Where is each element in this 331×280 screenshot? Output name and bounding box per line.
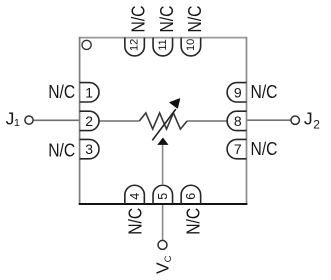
svg-text:N/C: N/C xyxy=(183,208,203,235)
svg-text:6: 6 xyxy=(184,193,198,200)
package outline top xyxy=(80,37,247,39)
svg-text:5: 5 xyxy=(156,193,170,200)
wire pin2 to resistor xyxy=(99,120,140,122)
svg-text:9: 9 xyxy=(234,84,242,100)
svg-text:2: 2 xyxy=(313,118,320,132)
pin 6 xyxy=(181,185,201,204)
variable-resistor diagonal arrow xyxy=(152,109,176,140)
pin 11 xyxy=(153,38,173,56)
pin 9 xyxy=(227,83,246,102)
pin 3 xyxy=(80,139,99,158)
svg-text:N/C: N/C xyxy=(251,139,278,159)
pin 12 xyxy=(125,38,145,56)
svg-text:10: 10 xyxy=(185,39,197,51)
pin 1 indicator circle xyxy=(82,40,91,49)
package outline right xyxy=(246,37,248,204)
svg-text:N/C: N/C xyxy=(185,6,205,33)
svg-text:1: 1 xyxy=(85,84,93,100)
wire pin 5 to Vc terminal xyxy=(162,205,164,240)
pin 8 xyxy=(227,111,246,130)
svg-text:N/C: N/C xyxy=(48,140,75,160)
svg-text:2: 2 xyxy=(85,113,93,129)
svg-text:N/C: N/C xyxy=(157,6,177,33)
svg-text:J: J xyxy=(304,109,313,129)
svg-text:N/C: N/C xyxy=(48,82,75,102)
svg-text:8: 8 xyxy=(234,113,242,129)
pin 2 xyxy=(80,111,99,130)
terminal Vc xyxy=(158,240,167,249)
pin 7 xyxy=(227,139,246,158)
svg-text:1: 1 xyxy=(14,117,20,129)
pin 10 xyxy=(181,38,201,56)
terminal J1 xyxy=(25,116,33,124)
svg-text:4: 4 xyxy=(128,193,142,200)
svg-text:7: 7 xyxy=(234,141,242,157)
wire package to J2 xyxy=(247,119,291,121)
wire J1 to package xyxy=(33,119,80,121)
svg-text:N/C: N/C xyxy=(251,82,278,102)
package outline left xyxy=(79,37,81,204)
wire resistor to pin8 xyxy=(187,120,227,122)
svg-text:3: 3 xyxy=(85,141,93,157)
svg-text:N/C: N/C xyxy=(128,6,148,33)
control arrow from pin 5 xyxy=(162,144,164,186)
terminal J2 xyxy=(291,116,299,124)
package outline bottom xyxy=(79,203,248,205)
label Vc xyxy=(152,255,174,274)
svg-text:N/C: N/C xyxy=(126,208,146,235)
resistor (variable attenuator element) xyxy=(139,113,187,129)
svg-text:11: 11 xyxy=(157,39,169,50)
svg-text:VC: VC xyxy=(152,255,174,274)
svg-text:12: 12 xyxy=(129,39,141,51)
pin 1 xyxy=(80,83,99,102)
pin 4 xyxy=(125,185,145,204)
pin 5 xyxy=(153,185,173,204)
